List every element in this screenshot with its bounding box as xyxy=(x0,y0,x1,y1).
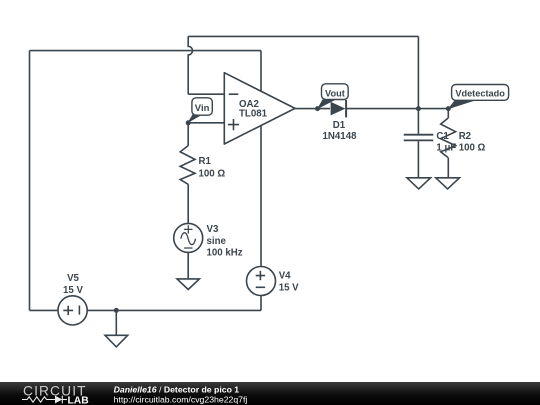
ground at bottom rail xyxy=(105,335,128,347)
svg-text:R2: R2 xyxy=(459,131,471,142)
voltage source V4 circle xyxy=(247,267,276,296)
svg-text:Danielle16 / Detector de pico: Danielle16 / Detector de pico 1 xyxy=(114,384,240,394)
svg-text:http://circuitlab.com/cvg23he2: http://circuitlab.com/cvg23he22q7fj xyxy=(114,395,248,405)
wire V3 to ground xyxy=(187,252,189,279)
wire V5 positive rail horizontal xyxy=(30,50,262,52)
svg-text:100 Ω: 100 Ω xyxy=(199,168,226,179)
ground below R2 xyxy=(436,178,460,189)
V3 sine symbol xyxy=(181,233,196,245)
wire feedback left vertical with hop over supply wire xyxy=(188,36,192,94)
V3 plus sign xyxy=(184,225,192,233)
wire Vin node down to R1 xyxy=(187,123,189,146)
voltage source V5 circle xyxy=(58,296,87,325)
svg-text:Vdetectado: Vdetectado xyxy=(455,88,505,98)
svg-text:Vin: Vin xyxy=(195,103,210,114)
svg-text:V5: V5 xyxy=(67,273,79,284)
svg-text:V4: V4 xyxy=(279,271,291,282)
node flag Vdetectado pointer xyxy=(448,100,478,109)
wire inverting input stub xyxy=(188,93,224,95)
ground below V3 xyxy=(177,279,199,290)
node flag Vout pointer xyxy=(317,100,336,110)
svg-text:R1: R1 xyxy=(199,156,212,167)
svg-text:1 μF: 1 μF xyxy=(436,143,456,154)
CircuitLab logo diode triangle xyxy=(55,396,62,404)
node flag Vdetectado box xyxy=(452,85,509,101)
V4 plus sign xyxy=(256,271,265,280)
wire R1 to V3 xyxy=(187,184,189,223)
svg-text:15 V: 15 V xyxy=(63,285,83,296)
node dot at R2 junction xyxy=(446,106,451,111)
node dot at Vin xyxy=(186,120,191,125)
wire left rail vertical xyxy=(29,51,31,311)
svg-text:D1: D1 xyxy=(333,120,346,131)
svg-text:sine: sine xyxy=(207,236,227,247)
wire bottom rail right segment xyxy=(87,309,261,311)
wire R2 to ground xyxy=(447,158,449,178)
V5 minus bar xyxy=(78,306,80,315)
node flag Vout box xyxy=(322,84,349,100)
wire C1 to ground xyxy=(417,141,419,178)
wire Vdetectado node down to R2 xyxy=(447,109,449,118)
node dot at op-amp output xyxy=(315,106,320,111)
ground below C1 xyxy=(407,178,431,189)
wire D1 cathode to output node xyxy=(346,108,448,110)
svg-text:Vout: Vout xyxy=(325,88,345,98)
node flag Vin box xyxy=(192,98,212,115)
op-amp OA2 non-inverting plus symbol xyxy=(228,119,239,130)
CircuitLab logo wire zigzag and diode xyxy=(22,396,67,404)
node dot at bottom ground junction xyxy=(114,308,119,313)
wire feedback right vertical down to output node xyxy=(417,36,419,108)
svg-text:V3: V3 xyxy=(207,224,219,235)
wire ground stub at bottom rail xyxy=(115,310,117,335)
V5 plus sign xyxy=(63,306,73,315)
resistor R1 xyxy=(180,146,195,185)
V4 minus sign xyxy=(256,286,265,288)
voltage source V3 circle xyxy=(174,223,203,252)
svg-text:15 V: 15 V xyxy=(279,282,299,293)
wire op-amp output to D1 xyxy=(295,108,330,110)
wire bottom rail left segment xyxy=(30,309,59,311)
op-amp OA2 inverting minus symbol xyxy=(229,93,239,95)
V3 minus sign xyxy=(184,247,192,249)
wire V4 vertical rail xyxy=(260,51,262,267)
wire feedback top horizontal xyxy=(188,35,418,37)
svg-text:100 Ω: 100 Ω xyxy=(459,143,486,154)
svg-text:100 kHz: 100 kHz xyxy=(207,248,243,259)
svg-text:LAB: LAB xyxy=(68,396,89,405)
wire Vin node to non-inverting input xyxy=(188,122,224,124)
capacitor C1 xyxy=(404,135,434,141)
node flag Vin pointer xyxy=(187,115,202,124)
diode D1 xyxy=(331,100,347,117)
svg-text:1N4148: 1N4148 xyxy=(323,131,358,142)
wire V4 to bottom rail xyxy=(260,296,262,311)
wire output node down to C1 xyxy=(417,109,419,134)
node dot at C1 junction xyxy=(416,106,421,111)
resistor R2 xyxy=(441,118,456,158)
op-amp OA2 triangle xyxy=(224,73,295,144)
svg-text:C1: C1 xyxy=(436,131,449,142)
svg-text:TL081: TL081 xyxy=(239,109,268,120)
